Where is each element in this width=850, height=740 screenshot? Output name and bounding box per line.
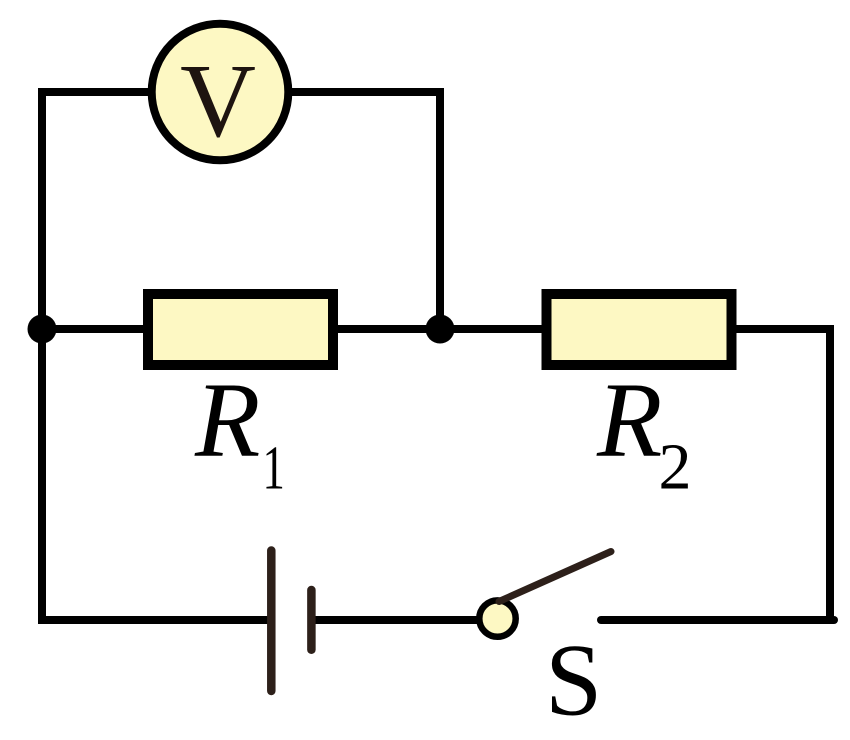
switch S lever xyxy=(499,552,611,602)
wire: middle horizontal xyxy=(42,325,830,333)
battery BT1 long plate xyxy=(267,551,276,692)
svg-text:R: R xyxy=(194,362,260,480)
wire: vertical from top to middle node xyxy=(436,88,444,329)
resistor R1 box xyxy=(148,294,333,365)
wire: right vertical xyxy=(826,325,834,620)
svg-text:V: V xyxy=(180,42,256,159)
wire: bottom left segment xyxy=(38,616,271,624)
switch S pivot xyxy=(479,600,515,636)
svg-text:S: S xyxy=(545,624,602,738)
svg-text:1: 1 xyxy=(263,433,285,502)
wire: top horizontal xyxy=(38,88,444,96)
node A junction dot left xyxy=(28,315,57,344)
wire: bottom segment battery to switch xyxy=(311,616,497,624)
wire: bottom right segment xyxy=(601,616,834,624)
wire: left vertical xyxy=(38,88,46,620)
voltmeter U1 circle xyxy=(152,24,289,161)
battery BT1 short plate xyxy=(307,590,316,650)
svg-text:R: R xyxy=(596,362,662,480)
svg-text:2: 2 xyxy=(659,431,692,504)
resistor R2 box xyxy=(547,294,732,365)
node B junction dot middle xyxy=(426,315,455,344)
